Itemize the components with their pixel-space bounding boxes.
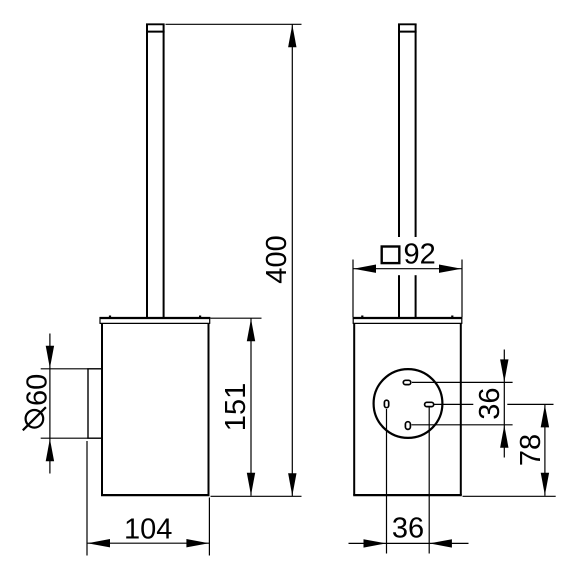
container lid (side view) — [100, 317, 211, 323]
dim 78 extension line bottom — [463, 495, 556, 497]
brush handle (side view) — [146, 24, 165, 317]
svg-text:151: 151 — [220, 383, 252, 431]
dim 78 arrow down — [541, 473, 549, 496]
dim D60 arrow up (outside bottom) — [46, 439, 54, 462]
dim 400 / 151 extension line bottom — [211, 495, 302, 497]
dim 78 line — [544, 404, 546, 495]
dim D60 arrow down (outside top) — [46, 346, 54, 369]
mounting hole right — [425, 402, 434, 406]
dim 400 extension line top — [166, 23, 302, 25]
dim 151 line — [250, 318, 252, 496]
lid corner tick marks (side view) — [109, 316, 111, 318]
mounting hole top — [403, 380, 411, 384]
dim 400 arrow down — [288, 473, 296, 496]
svg-text:60: 60 — [22, 374, 54, 406]
dim 36 vertical line — [503, 350, 505, 458]
dim 36 vertical arrow up (outside bottom) — [500, 425, 508, 448]
dim 92 extension line right — [461, 260, 463, 318]
dim 400 line — [291, 24, 293, 496]
container lid (front view) — [353, 317, 463, 323]
leader from right hole (horizontal) — [435, 403, 554, 405]
dim 36 bottom arrow right-pointing (outside left) — [364, 539, 387, 547]
dim 92 line — [353, 268, 462, 270]
svg-text:78: 78 — [515, 434, 547, 466]
svg-text:104: 104 — [124, 513, 172, 545]
mounting plate circle (front view) — [374, 369, 443, 438]
leader from bottom hole — [412, 424, 513, 426]
dim D60 line — [49, 334, 51, 474]
dim 36 bottom line — [349, 542, 469, 544]
dim D60 label diameter symbol — [26, 410, 44, 428]
container body (front view) — [353, 323, 462, 495]
wall mounting plate (side view) — [87, 369, 101, 438]
label background mask over leader for dim 36 vertical — [473, 384, 507, 424]
dim 104 line — [87, 542, 209, 544]
dim 36 bottom arrow left-pointing (outside right) — [429, 539, 452, 547]
mounting hole left — [384, 400, 388, 408]
dim 104 arrow right — [186, 539, 209, 547]
leader from top hole — [412, 381, 513, 383]
mounting hole bottom — [405, 422, 410, 430]
dim D60 extension line bottom — [41, 437, 88, 439]
svg-text:400: 400 — [261, 235, 293, 283]
dim 151 arrow up — [247, 319, 255, 342]
dim 151 arrow down — [247, 473, 255, 496]
svg-text:92: 92 — [404, 238, 436, 270]
dim 104 extension line left — [86, 441, 88, 556]
dim 92 square symbol — [382, 247, 400, 264]
dim 92 arrow right — [439, 265, 462, 273]
label background mask over handle for dim 92 — [379, 237, 438, 275]
dim 104 arrow left — [88, 539, 111, 547]
dim 92 extension line left — [352, 260, 354, 318]
dim 78 arrow up — [541, 405, 549, 428]
brush handle (front view) — [398, 24, 417, 317]
container body (side view) — [101, 323, 210, 495]
leader from right hole (vertical) — [428, 408, 430, 554]
dim 92 arrow left — [354, 265, 377, 273]
dim 36 vertical arrow down (outside top) — [500, 359, 508, 382]
dim 400 arrow up — [288, 25, 296, 48]
dim 104 extension line right — [208, 498, 210, 556]
svg-text:36: 36 — [392, 513, 424, 545]
dim 151 extension line top — [211, 317, 262, 319]
leader from left hole (vertical) — [386, 409, 388, 554]
lid corner tick marks (front view) — [361, 316, 363, 318]
svg-text:36: 36 — [474, 387, 506, 419]
dim D60 extension line top — [41, 368, 88, 370]
